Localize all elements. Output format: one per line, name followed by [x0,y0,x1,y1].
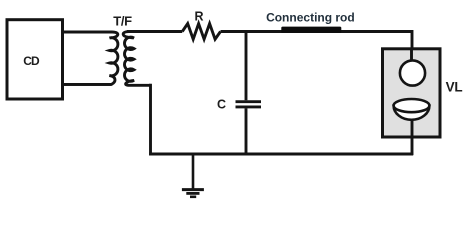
wire top rail: resistor to right corner, down into VL box [221,32,413,61]
svg-text:CD: CD [23,54,40,68]
wire capacitor bottom to ground rail [245,108,248,155]
wire bowl to ground rail [411,119,414,155]
wire secondary bottom down to ground rail [149,84,152,156]
box CD (signal source) [7,20,63,99]
connecting rod (thick bar) [281,27,341,33]
lamp bowl rim [394,99,430,112]
capacitor C plate 2 [236,105,262,108]
lamp bowl body [394,106,430,120]
transformer T/F secondary winding (right, 4 loops) [123,32,150,86]
capacitor C plate 1 [236,100,262,103]
ground symbol stem [192,154,195,189]
wire capacitor top (junction to plate) [245,32,248,101]
svg-text:R: R [194,10,203,24]
wire top rail: secondary to resistor [127,30,182,33]
lamp circle [400,60,425,85]
svg-text:VL: VL [446,80,463,95]
transformer T/F primary winding (left, 3 loops) [63,32,118,84]
ground symbol bar 1 [182,188,204,191]
svg-text:T/F: T/F [113,13,132,28]
wire inside box: top to lamp circle [410,48,413,61]
ground symbol bar 2 [186,192,199,195]
svg-text:C: C [217,97,226,111]
VL lamp box [383,49,441,137]
svg-text:Connecting rod: Connecting rod [266,11,355,25]
ground rail (bottom wire) [149,153,413,156]
ground symbol bar 3 [190,196,196,199]
wire CD bottom to transformer primary [63,83,111,86]
wire CD top to transformer primary [63,31,113,34]
resistor R (zigzag) [182,24,220,40]
